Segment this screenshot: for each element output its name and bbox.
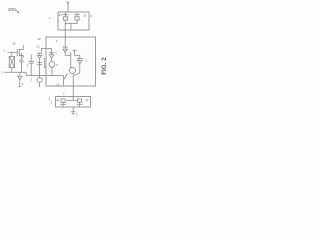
svg-text:21: 21 [56, 98, 60, 102]
transistor MA (mid-left) [37, 53, 43, 58]
svg-text:22: 22 [38, 37, 42, 41]
wire center tail of top box to box edge [70, 24, 72, 31]
svg-text:200: 200 [8, 7, 16, 12]
wire cross-coupling in top box [65, 20, 77, 23]
svg-text:2: 2 [90, 14, 92, 18]
current source I1 circle [49, 62, 55, 68]
wire input gate wire [7, 51, 17, 53]
svg-text:2: 2 [63, 92, 65, 96]
svg-text:2: 2 [22, 82, 24, 86]
transistor Q3 (center, under x65 line) [62, 47, 68, 52]
capacitor C1 (left column) [19, 53, 23, 72]
transistor Q6 (left inside box) [49, 49, 55, 59]
current source I4 (below lower-left rail) [17, 72, 22, 86]
svg-text:21: 21 [85, 98, 89, 102]
box 212 (bottom cross-coupled pair) [56, 97, 91, 108]
wire bottom box tail down [72, 107, 74, 112]
transistor Q1 (top box left) [63, 12, 69, 20]
svg-text:2: 2 [76, 113, 78, 117]
wire lower left rail [4, 71, 26, 73]
transistor Q4 (right of center) [77, 55, 83, 63]
transistor Q7 (bottom box left) [60, 99, 66, 107]
wire diagonal into Y [64, 73, 67, 79]
wire tail rail into box [26, 75, 63, 77]
wire vertical va [70, 52, 72, 67]
svg-text:FIG. 2: FIG. 2 [101, 57, 108, 75]
ground symbol [71, 112, 76, 115]
svg-text:2: 2 [56, 39, 58, 43]
svg-text:2: 2 [55, 50, 57, 54]
wire below I2 through box bottom to bottom box [72, 74, 74, 97]
wire Q6 to I1 [51, 58, 53, 61]
wire vertical vb with top tick [73, 50, 75, 55]
wire MA down to I3 [39, 59, 41, 78]
wire Q4 source down and bend to center [74, 64, 80, 76]
label 200 with leader arrow [8, 7, 19, 13]
svg-text:2: 2 [1, 71, 3, 75]
wire stub near box edge [44, 58, 46, 68]
box 210 (top cross-coupled pair) [58, 12, 89, 30]
capacitor C2 in MA branch [37, 63, 42, 65]
wire I1 down to tail wire [51, 67, 53, 75]
wire gate loop from MA up over to Q6 [42, 49, 52, 53]
transistor ML (left column) [17, 45, 23, 58]
svg-text:22: 22 [36, 44, 40, 48]
current source I3 circle (below MA) [37, 78, 42, 83]
capacitor CB (mid-left branch) [29, 54, 34, 75]
current source I2 circle [69, 67, 75, 73]
supply arrow VDD at top of box 210 [66, 1, 70, 12]
svg-text:23: 23 [56, 82, 60, 86]
svg-text:2: 2 [56, 63, 58, 67]
svg-text:2: 2 [86, 58, 88, 62]
wire vb to Q4 gate [74, 54, 79, 56]
wire Q3 source right [65, 52, 71, 55]
svg-text:2: 2 [3, 49, 5, 53]
wire Y-junction to box bottom [62, 76, 64, 86]
transistor Q2 (top box right) [74, 12, 80, 20]
svg-text:2: 2 [49, 16, 51, 20]
svg-text:2: 2 [31, 78, 33, 82]
wire jog to tail rail [25, 72, 27, 75]
svg-text:20: 20 [13, 41, 17, 45]
wire cross-coupling bottom box [72, 97, 74, 101]
svg-text:2: 2 [27, 64, 29, 68]
wire I3 tail [39, 83, 41, 88]
wire Q1 drain down into box 220 [64, 20, 66, 47]
transistor Q8 (bottom box right) [77, 99, 83, 107]
svg-text:21: 21 [59, 13, 63, 17]
svg-text:21: 21 [83, 14, 87, 18]
inductor L1 boxed [9, 52, 14, 72]
svg-text:2: 2 [51, 100, 53, 104]
box 220 (main core box) [46, 37, 96, 86]
